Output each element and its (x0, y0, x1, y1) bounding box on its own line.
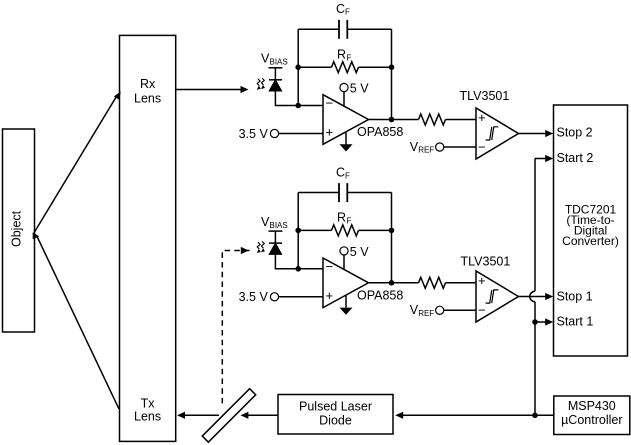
wire VBIAS bar to D1 (274, 68, 276, 80)
svg-text:OPA858: OPA858 (357, 288, 403, 302)
svg-text:R: R (337, 211, 346, 225)
svg-text:Stop 2: Stop 2 (557, 126, 593, 140)
svg-text:C: C (336, 166, 345, 180)
light arrows into D1 (257, 78, 264, 86)
wire mirror to Tx lens (184, 414, 219, 416)
svg-text:R: R (337, 48, 346, 62)
wire comparator U4 to Stop 1 (519, 296, 547, 298)
node dot at MSP wire (532, 413, 538, 419)
svg-text:Object: Object (10, 210, 24, 247)
svg-text:Lens: Lens (134, 410, 161, 424)
svg-text:−: − (326, 259, 334, 274)
lens box (Rx/Tx) (120, 35, 176, 441)
mirror (202, 389, 255, 442)
svg-text:5 V: 5 V (350, 82, 369, 96)
V_BIAS terminal bar (lower) (269, 230, 283, 232)
svg-text:F: F (345, 8, 350, 17)
svg-text:Diode: Diode (319, 414, 352, 428)
output wire U2 to comparator (lower) (369, 282, 419, 284)
RF wire + resistor (lower) (298, 229, 331, 231)
hysteresis symbol lower (486, 290, 499, 303)
arrowhead at D1 (241, 86, 249, 93)
svg-text:5 V: 5 V (350, 245, 369, 259)
RF wire + resistor (upper) (298, 66, 331, 68)
top wire to capacitor CF (298, 28, 339, 30)
node dots on RF lower (295, 228, 301, 234)
svg-text:µController: µController (561, 413, 622, 427)
svg-text:Start 1: Start 1 (557, 314, 594, 328)
series resistor upper (419, 114, 446, 125)
svg-text:+: + (478, 110, 486, 125)
svg-text:−: − (478, 140, 486, 155)
wire D1 anode to inverting node (275, 91, 323, 106)
ground (upper) (345, 132, 347, 144)
comparator U4 TLV3501 (lower) (476, 271, 519, 322)
vertical start wire with hop (534, 159, 536, 292)
dashed beam corner to photodiode D2 (222, 251, 249, 408)
node dot Start 1 (532, 319, 538, 325)
svg-text:Pulsed Laser: Pulsed Laser (299, 400, 372, 414)
wire Tx lens to object beam (37, 237, 119, 409)
arrowhead into Rx lens (114, 91, 121, 100)
output wire U1 to comparator (upper) (369, 119, 419, 121)
light arrows into D2 (257, 241, 264, 249)
top wire to capacitor CF lower (298, 192, 339, 194)
Start 1 arrow (535, 321, 546, 323)
svg-text:REF: REF (418, 309, 434, 318)
node dot (left feedback / inv input, lower) (295, 266, 301, 272)
op-amp U1 OPA858 (upper) (323, 95, 369, 145)
wire PLD to mirror (248, 414, 279, 416)
svg-text:F: F (347, 217, 352, 226)
wire MSP430 to pulsed laser diode (402, 414, 554, 416)
pulsed laser diode box (278, 395, 393, 435)
svg-text:+: + (478, 273, 486, 288)
Start 2 arrow (535, 158, 546, 160)
svg-text:F: F (347, 53, 352, 62)
5V supply (upper) (340, 83, 348, 91)
feedback network lower: left vertical wire (297, 193, 299, 269)
ground (lower) (345, 296, 347, 308)
TDC7201 box (554, 105, 628, 356)
wire Rx lens to photodiode D1 (176, 89, 241, 91)
wire hop over stop1 (530, 291, 535, 301)
svg-text:3.5 V: 3.5 V (239, 127, 269, 141)
node dot (left feedback / inv input, upper) (295, 103, 301, 109)
object box (3, 129, 35, 332)
svg-text:Rx: Rx (140, 77, 156, 91)
svg-text:−: − (478, 303, 486, 318)
svg-text:REF: REF (418, 146, 434, 155)
svg-text:TLV3501: TLV3501 (460, 89, 510, 103)
feedback network upper: left vertical wire (297, 29, 299, 105)
comparator U3 TLV3501 (upper) (476, 108, 519, 159)
svg-text:+: + (326, 125, 334, 140)
MSP430 box (554, 396, 630, 435)
svg-text:Converter): Converter) (562, 234, 619, 248)
op-amp U2 OPA858 (lower) (323, 258, 369, 308)
svg-text:BIAS: BIAS (270, 58, 288, 67)
svg-text:C: C (336, 2, 345, 16)
right vertical feedback wire lower (391, 193, 393, 283)
svg-text:Lens: Lens (134, 92, 161, 106)
photodiode D1 (269, 79, 282, 81)
svg-text:Start 2: Start 2 (557, 151, 594, 165)
svg-text:F: F (345, 171, 350, 180)
wire comparator U3 to Stop 2 (519, 133, 547, 135)
svg-text:Stop 1: Stop 1 (557, 290, 593, 304)
svg-text:Tx: Tx (141, 397, 156, 411)
wire VBIAS bar to D2 (274, 231, 276, 243)
output node dot upper (389, 117, 395, 123)
capacitor CF plates (upper) (339, 20, 347, 39)
capacitor CF plates (lower) (339, 183, 347, 202)
5V supply (lower) (340, 247, 348, 255)
svg-text:−: − (326, 96, 334, 111)
photodiode D2 (269, 242, 282, 244)
svg-text:MSP430: MSP430 (568, 399, 616, 413)
V_BIAS terminal bar (upper) (269, 67, 283, 69)
wire D2 anode to inverting node (275, 254, 323, 269)
right vertical feedback wire upper (391, 29, 393, 119)
svg-text:BIAS: BIAS (270, 221, 288, 230)
output node dot lower (389, 280, 395, 286)
wire object to Rx lens beam (34, 96, 116, 232)
series resistor lower (419, 277, 446, 288)
svg-text:TLV3501: TLV3501 (461, 255, 511, 269)
svg-text:+: + (326, 288, 334, 303)
arrowhead into object (33, 232, 40, 239)
svg-text:3.5 V: 3.5 V (239, 290, 269, 304)
svg-text:OPA858: OPA858 (357, 125, 403, 139)
node dots on RF upper (295, 64, 301, 70)
hysteresis symbol upper (486, 127, 499, 140)
